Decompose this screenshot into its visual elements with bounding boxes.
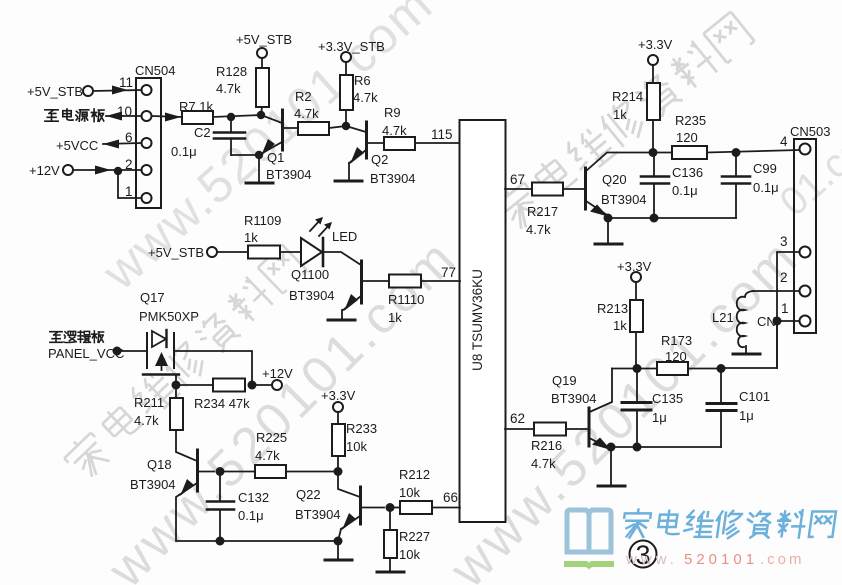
resistor R212 10k (390, 507, 400, 509)
svg-text:R9: R9 (384, 105, 401, 120)
CN504 pin 1 (142, 193, 152, 203)
node R173/C101 junction (717, 364, 726, 373)
resistor R7 1k (182, 111, 213, 124)
wire R235 to CN503 pin 4 (707, 150, 799, 153)
logo circled 3 (630, 541, 657, 568)
svg-text:R1110: R1110 (388, 292, 424, 307)
svg-text:R234 47k: R234 47k (194, 396, 250, 411)
svg-text:1k: 1k (244, 230, 258, 245)
node R213/R173 junction (633, 364, 642, 373)
svg-text:10k: 10k (399, 485, 420, 500)
CN504 pin 11 (142, 85, 152, 95)
svg-text:4.7k: 4.7k (382, 123, 407, 138)
node R235 right junction (732, 148, 741, 157)
svg-text:CN504: CN504 (135, 63, 175, 78)
svg-text:BT3904: BT3904 (130, 477, 176, 492)
svg-text:67: 67 (510, 172, 525, 187)
resistor R9 4.7k (384, 137, 415, 150)
svg-text:PANEL_VCC: PANEL_VCC (48, 346, 124, 361)
svg-text:Q1: Q1 (267, 150, 284, 165)
svg-text:U8 TSUMV36KU: U8 TSUMV36KU (470, 269, 485, 371)
wire Q18 emitter down and along bottom (176, 495, 338, 541)
node R225/R233/Q22 junction (334, 467, 343, 476)
svg-text:+3.3V: +3.3V (321, 388, 356, 403)
svg-text:C135: C135 (652, 391, 683, 406)
capacitor C136 0.1u (653, 153, 655, 177)
svg-text:C99: C99 (753, 161, 777, 176)
node R7/C2 junction (227, 113, 235, 121)
node 至电源板 (45, 109, 104, 122)
svg-text:Q22: Q22 (296, 487, 321, 502)
CN503 pin 2 (800, 286, 811, 297)
connector CN504 (136, 78, 161, 208)
wire Q20 emitter rail (608, 217, 736, 219)
resistor R233 10k (337, 412, 339, 424)
svg-text:4.7k: 4.7k (134, 413, 159, 428)
svg-text:+5VCC: +5VCC (56, 138, 98, 153)
arrow inside Q17 (155, 352, 168, 366)
logo green ribbon (564, 561, 614, 571)
CN503 pin 1 (800, 316, 811, 327)
transistor Q18 BT3904 (196, 450, 199, 491)
ground under L21 (745, 346, 747, 353)
transistor Q2 BT3904 (346, 126, 366, 132)
svg-text:R227: R227 (399, 529, 430, 544)
svg-text:BT3904: BT3904 (295, 507, 341, 522)
logo title 家电维修资料网 (621, 510, 836, 539)
wire Q19 emitter rail (611, 446, 721, 448)
resistor R6 4.7k (345, 62, 347, 75)
svg-text:R173: R173 (661, 333, 692, 348)
wire U8 pin 67 to R217 (505, 188, 532, 190)
svg-text:+3.3V_STB: +3.3V_STB (318, 39, 385, 54)
wire CN node down to R173 node (721, 321, 777, 368)
capacitor C135 1u (636, 369, 638, 403)
svg-text:R212: R212 (399, 467, 430, 482)
svg-text:1: 1 (781, 301, 789, 316)
svg-text:4.7k: 4.7k (216, 81, 241, 96)
svg-text:R217: R217 (527, 204, 558, 219)
resistor R1109 1k (217, 251, 248, 253)
resistor R234 47k (180, 384, 213, 386)
svg-text:Q2: Q2 (371, 152, 388, 167)
wire +5V_STB to pin 11 with arrow (93, 90, 141, 91)
svg-text:4.7k: 4.7k (294, 106, 319, 121)
wire R1109 to LED (280, 251, 301, 253)
transistor Q20 BT3904 (584, 168, 587, 209)
wire pin6 left arrow (103, 143, 141, 144)
svg-text:Q18: Q18 (147, 457, 172, 472)
svg-text:R1109: R1109 (244, 213, 281, 228)
resistor R235 120 (657, 152, 672, 154)
wire R2 to Q2 node (329, 126, 346, 128)
svg-text:BT3904: BT3904 (551, 391, 597, 406)
wire R1110 to U8 pin 77 (421, 280, 460, 282)
transistor Q1 BT3904 (261, 115, 282, 123)
gate bar of Q17 (143, 373, 179, 375)
svg-text:120: 120 (665, 349, 687, 364)
node Q19 emitter junction (607, 443, 616, 452)
node Q20 emitter junction (604, 214, 613, 223)
svg-text:www.: www. (625, 551, 678, 568)
svg-text:11: 11 (119, 75, 133, 90)
wire +12V to pin 2 with arrow (73, 169, 141, 171)
node +12V right terminal (256, 384, 272, 386)
svg-text:2: 2 (780, 270, 788, 285)
logo book icon (567, 510, 611, 552)
svg-text:01.com: 01.com (772, 104, 842, 224)
node R128/base junction (257, 111, 265, 119)
svg-text:62: 62 (510, 411, 525, 426)
svg-text:BT3904: BT3904 (370, 171, 416, 186)
svg-text:R211: R211 (134, 395, 164, 410)
ground under R227 (389, 558, 391, 571)
resistor R128 4.7k (261, 58, 263, 68)
CN504 pin 6 (142, 138, 152, 148)
svg-text:+12V: +12V (262, 366, 293, 381)
svg-text:R216: R216 (531, 438, 562, 453)
node Q22 emitter junction (334, 537, 343, 546)
node Q18 collector junction (216, 467, 225, 476)
watermark 家电维修资料网 bottom-left diagonal (61, 243, 309, 484)
CN504 pin 10 (142, 111, 152, 121)
node R6 bottom junction (342, 122, 350, 130)
resistor R2 4.7k (298, 122, 329, 135)
svg-text:R213: R213 (597, 301, 628, 316)
svg-text:.com: .com (760, 551, 805, 568)
svg-text:115: 115 (431, 127, 453, 142)
ground under Q2 (348, 163, 350, 180)
transistor Q22 BT3904 (338, 472, 360, 498)
svg-text:4.7k: 4.7k (255, 448, 280, 463)
svg-text:77: 77 (441, 265, 456, 280)
svg-text:120: 120 (676, 130, 698, 145)
svg-text:1k: 1k (388, 310, 402, 325)
svg-text:PMK50XP: PMK50XP (139, 309, 199, 324)
wire +12V node down to pin 1 (118, 171, 141, 198)
transistor Q1100 BT3904 (360, 261, 363, 303)
svg-text:4: 4 (780, 134, 788, 149)
CN503 pin 4 (800, 144, 811, 155)
ground under Q1 (258, 155, 260, 182)
watermark 家电维修资料网 top-right diagonal (490, 10, 755, 236)
wire LED to Q1100 (324, 252, 361, 265)
svg-text:0.1μ: 0.1μ (753, 180, 779, 195)
body diode of Q17 (152, 331, 166, 347)
svg-text:+12V: +12V (29, 163, 60, 178)
resistor R173 120 (657, 362, 688, 375)
resistor R216 4.7k (534, 423, 566, 436)
capacitor C99 0.1u (735, 153, 737, 177)
svg-text:C101: C101 (739, 389, 770, 404)
svg-text:520101: 520101 (684, 551, 758, 568)
svg-text:BT3904: BT3904 (266, 167, 312, 182)
svg-text:Q20: Q20 (602, 172, 627, 187)
svg-text:3: 3 (780, 234, 788, 249)
transistor Q19 BT3904 (588, 408, 591, 446)
svg-text:1μ: 1μ (739, 408, 754, 423)
svg-text:LED: LED (332, 229, 357, 244)
CN503 pin 3 (800, 247, 811, 258)
capacitor C132 0.1u (219, 472, 221, 502)
wire R9 to U8 pin 115 (415, 142, 460, 144)
ground under Q22 (337, 541, 339, 559)
svg-text:4.7k: 4.7k (531, 456, 556, 471)
svg-text:C2: C2 (194, 125, 211, 140)
svg-text:Q17: Q17 (140, 290, 165, 305)
wire Q19 collector rail (612, 368, 657, 370)
svg-text:CN: CN (757, 314, 776, 329)
junction +12V node (114, 167, 122, 175)
svg-text:1μ: 1μ (652, 410, 667, 425)
wire R211 to Q18 base (176, 430, 197, 461)
svg-text:+5V_STB: +5V_STB (27, 84, 83, 99)
wire pin10 left arrow (106, 115, 141, 117)
svg-text:10k: 10k (346, 439, 367, 454)
svg-text:10k: 10k (399, 547, 420, 562)
svg-text:R233: R233 (346, 421, 377, 436)
capacitor C2 0.1u (230, 117, 232, 132)
diode LED (301, 238, 322, 266)
ground under Q19 (610, 447, 612, 485)
svg-text:+5V_STB: +5V_STB (236, 32, 292, 47)
svg-text:CN503: CN503 (790, 124, 830, 139)
node R214/R235 junction (649, 148, 658, 157)
svg-text:Q19: Q19 (552, 373, 577, 388)
wire U8 pin 62 to R216 (505, 428, 534, 430)
resistor R217 4.7k (532, 183, 563, 196)
wire R7 to Q1 base (213, 115, 261, 117)
IC U8 TSUMV36KU (460, 120, 506, 522)
svg-text:R225: R225 (256, 430, 287, 445)
svg-text:C132: C132 (238, 490, 269, 505)
svg-text:+5V_STB: +5V_STB (148, 245, 204, 260)
wire pin10 to R7 with arrow (152, 116, 182, 117)
svg-text:L21: L21 (712, 310, 734, 325)
svg-text:0.1μ: 0.1μ (171, 144, 197, 159)
svg-text:1: 1 (125, 184, 133, 199)
resistor R211 4.7k (175, 389, 177, 398)
svg-text:0.1μ: 0.1μ (672, 183, 698, 198)
node CN pin1 junction (773, 317, 782, 326)
resistor R227 10k (389, 508, 391, 531)
node gate/R211/R234 junction (172, 381, 181, 390)
svg-text:R128: R128 (216, 64, 247, 79)
svg-text:4.7k: 4.7k (353, 90, 378, 105)
wire R212 to U8 pin 66 (432, 507, 460, 509)
wire Q17 drain to +12V node (174, 351, 252, 385)
node R234 right junction (248, 381, 257, 390)
node PANEL_VCC junction (113, 347, 122, 356)
ground under Q1100 (341, 310, 343, 319)
resistor R1110 1k (389, 275, 421, 288)
svg-text:C136: C136 (672, 165, 703, 180)
node Q22 collector junction (386, 503, 395, 512)
capacitor C101 1u (720, 369, 722, 404)
svg-text:Q1100: Q1100 (291, 267, 329, 282)
svg-text:R7 1k: R7 1k (179, 99, 213, 114)
resistor R213 1k (635, 282, 637, 300)
svg-text:R214: R214 (612, 89, 643, 104)
resistor R225 4.7k (224, 471, 255, 473)
CN504 pin 2 (142, 165, 152, 175)
svg-text:R6: R6 (354, 73, 371, 88)
svg-text:BT3904: BT3904 (601, 192, 647, 207)
svg-text:R2: R2 (295, 89, 312, 104)
svg-text:+3.3V: +3.3V (638, 37, 673, 52)
resistor R214 1k (652, 65, 654, 83)
svg-text:1k: 1k (613, 318, 627, 333)
svg-text:66: 66 (443, 490, 458, 505)
connector CN503 (794, 139, 816, 333)
svg-text:R235: R235 (675, 113, 706, 128)
ground under Q20 (607, 218, 609, 243)
svg-text:1k: 1k (613, 107, 627, 122)
svg-text:BT3904: BT3904 (289, 288, 335, 303)
wire CN503 pins bus (777, 252, 799, 368)
svg-text:4.7k: 4.7k (526, 222, 551, 237)
svg-text:0.1μ: 0.1μ (238, 508, 264, 523)
